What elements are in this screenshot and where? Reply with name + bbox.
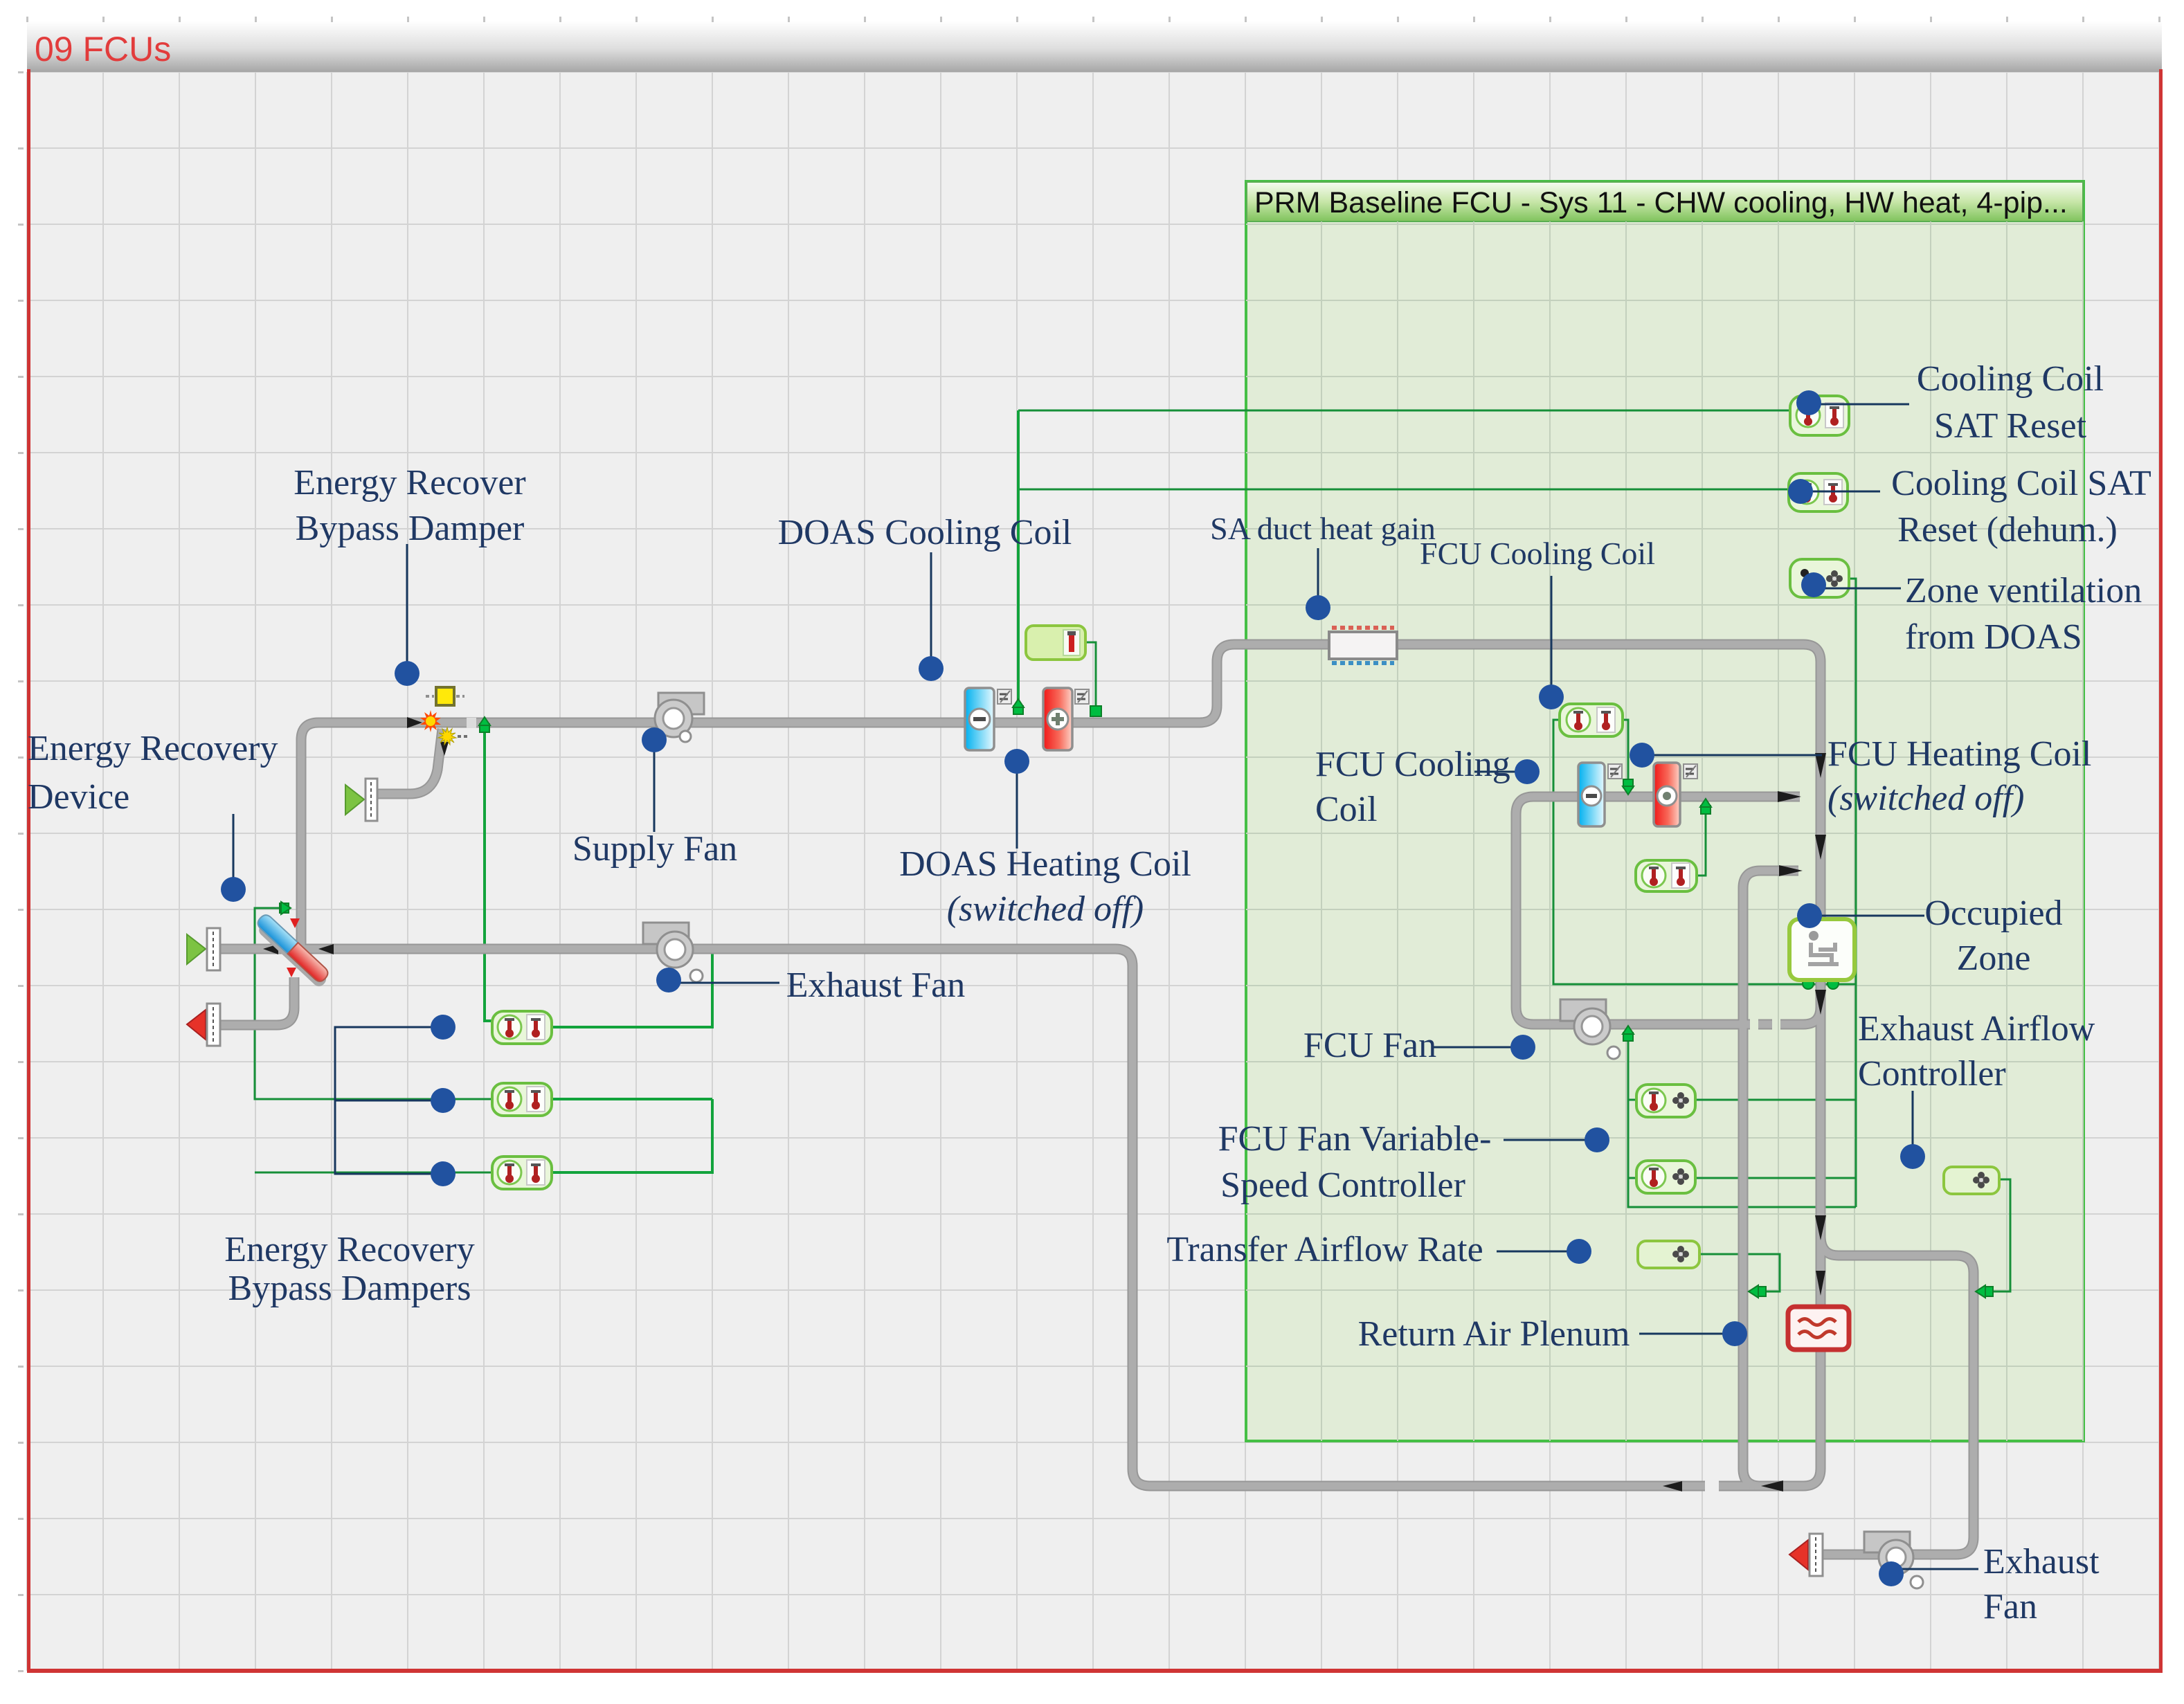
- dot cooling coil SAT reset: [1796, 390, 1821, 415]
- wire duct: outside air / exhaust main horizontal and run to plenum: [220, 949, 1796, 1486]
- sensor FCU fan speed 2: [1636, 1161, 1695, 1193]
- svg-text:Controller: Controller: [1858, 1054, 2006, 1094]
- leader FCU cooling coil top: [1551, 576, 1553, 697]
- svg-text:Fan: Fan: [1983, 1587, 2037, 1626]
- sensor ERV bypass damper 1: [492, 1011, 552, 1044]
- wire cooling coil SAT reset to DOAS coil: [1018, 410, 1790, 412]
- duct gap on bottom exhaust run: [1705, 1480, 1719, 1492]
- damper starburst red: [420, 710, 441, 732]
- wire cooling coil SAT reset (dehum) to DOAS coil: [1018, 489, 1789, 491]
- damper starburst yellow: [438, 727, 468, 745]
- svg-text:Supply Fan: Supply Fan: [572, 829, 737, 869]
- arrow left at bottom junction: [1761, 1480, 1783, 1492]
- arrow down into plenum: [1816, 1271, 1825, 1296]
- arrow down zone exhaust: [1815, 1215, 1826, 1240]
- sensor cooling coil SAT reset dehum: [1789, 473, 1848, 511]
- wire duct: outside air / exhaust main horizontal and run to plenum: [220, 949, 1796, 1486]
- leader FCU heating coil: [1642, 754, 1822, 756]
- svg-text:Speed Controller: Speed Controller: [1220, 1166, 1465, 1205]
- exhaust outlet boundary bottom right: [1789, 1534, 1823, 1576]
- wire FCU coil sensor right to FCU heating coil duct: [1623, 720, 1628, 783]
- svg-text:Exhaust Fan: Exhaust Fan: [786, 966, 966, 1005]
- wire duct: bypass damper branch: [376, 729, 442, 794]
- header bar: [27, 21, 2162, 72]
- wire duct: FCU recirculation loop: [1794, 979, 1821, 1024]
- leader occupied zone: [1810, 915, 1924, 917]
- wire bypass sensors right to exhaust duct: [552, 950, 712, 1027]
- dot DOAS heating coil: [1004, 749, 1029, 774]
- wire duct: bypass damper branch: [376, 729, 442, 794]
- sensor FCU fan speed 1: [1636, 1085, 1695, 1117]
- wire FCU lower sensor to duct right of FCU heating coil: [1697, 806, 1706, 876]
- dot exhaust fan: [656, 968, 681, 993]
- leader FCU cooling coil left: [1474, 771, 1527, 773]
- svg-text:DOAS Heating Coil: DOAS Heating Coil: [899, 844, 1191, 884]
- svg-text:FCU Heating Coil: FCU Heating Coil: [1827, 734, 2091, 774]
- leader energy recovery device: [233, 814, 235, 889]
- leader FCU fan: [1433, 1046, 1523, 1049]
- dot FCU fan: [1510, 1035, 1535, 1060]
- wire duct: transfer air riser: [1743, 871, 1798, 1486]
- wire vertical drop to DOAS cooling coil duct: [1017, 410, 1020, 710]
- arrow down below zone: [1815, 990, 1826, 1015]
- dot FCU cooling coil left: [1515, 759, 1540, 784]
- exhaust outlet boundary: [187, 1004, 220, 1046]
- dot FCU fan variable speed controller: [1585, 1127, 1609, 1152]
- arrow down supply duct upper: [1815, 753, 1826, 778]
- svg-text:(switched off): (switched off): [947, 889, 1144, 929]
- wire bypass sensor 3 left: [255, 1172, 492, 1174]
- wire duct: FCU recirculation loop: [1794, 979, 1821, 1024]
- leader exhaust fan bottom: [1891, 1568, 1978, 1570]
- svg-text:Occupied: Occupied: [1924, 894, 2062, 933]
- svg-text:Energy Recover: Energy Recover: [294, 463, 525, 502]
- DOAS heating coil: [1043, 688, 1072, 750]
- dot zone ventilation: [1801, 572, 1826, 597]
- arrow on bottom exhaust duct: [1663, 1481, 1682, 1492]
- arrow exhaust into ERV right: [318, 944, 334, 954]
- leader energy recover bypass damper: [406, 544, 408, 673]
- OA inlet boundary: [187, 928, 220, 970]
- leader DOAS heating coil: [1016, 761, 1018, 849]
- svg-text:Cooling Coil SAT: Cooling Coil SAT: [1891, 464, 2151, 503]
- dot energy recover bypass damper: [395, 661, 419, 686]
- svg-text:Zone: Zone: [1957, 939, 2031, 978]
- leader cooling coil SAT reset: [1809, 404, 1909, 406]
- wire ERV bypass damper sensors to ERV riser: [255, 908, 492, 1099]
- sensor zone ventilation from DOAS: [1790, 559, 1849, 597]
- leader DOAS cooling coil: [930, 552, 932, 669]
- svg-text:FCU Fan Variable-: FCU Fan Variable-: [1218, 1119, 1492, 1159]
- leader tree bypass dampers: [335, 1027, 443, 1174]
- leader supply fan: [653, 740, 656, 832]
- leader exhaust fan: [669, 982, 779, 984]
- sensor FCU cooling coil controller: [1560, 704, 1623, 736]
- wire duct: zone to return air plenum: [1816, 1239, 1826, 1309]
- dot exhaust airflow controller: [1900, 1144, 1925, 1169]
- svg-text:FCU Cooling: FCU Cooling: [1315, 745, 1510, 784]
- wire duct: supply riser and main supply run into zone: [301, 644, 1821, 949]
- flow arrows: [263, 717, 1826, 1492]
- return air plenum icon: [1788, 1307, 1849, 1350]
- svg-text:(switched off): (switched off): [1827, 779, 2025, 818]
- leader SA duct heat gain: [1317, 548, 1319, 608]
- green control wires: [255, 410, 2010, 1291]
- sensor ERV bypass damper 3: [492, 1157, 552, 1189]
- dot bypass damper sensor 2: [431, 1088, 455, 1113]
- leader return air plenum: [1639, 1333, 1735, 1335]
- schedule icon FCU cooling coil: [1608, 764, 1622, 779]
- sensor ERV bypass damper 2: [492, 1083, 552, 1116]
- arrow FCU coil duct into supply: [1778, 791, 1801, 802]
- wire exhaust airflow box to duct node: [1989, 1179, 2010, 1291]
- arrow down supply duct lower: [1815, 835, 1826, 860]
- dot supply fan: [642, 727, 667, 752]
- svg-text:Return Air Plenum: Return Air Plenum: [1358, 1314, 1630, 1354]
- SA duct heat gain: [1329, 628, 1397, 663]
- svg-text:Device: Device: [28, 777, 129, 817]
- FCU heating coil: [1654, 763, 1680, 826]
- wire zone ventilation sensor control vertical: [1849, 579, 1856, 1207]
- dot SA duct heat gain: [1306, 595, 1330, 620]
- wire transfer airflow box to transfer duct: [1699, 1254, 1780, 1291]
- leader cooling coil SAT reset dehum: [1801, 491, 1880, 493]
- dot return air plenum: [1722, 1321, 1747, 1346]
- wire duct: exhaust outlet elbow: [220, 977, 294, 1025]
- svg-text:Zone ventilation: Zone ventilation: [1905, 571, 2142, 610]
- leader FCU fan variable speed controller: [1504, 1139, 1597, 1141]
- svg-text:SAT Reset: SAT Reset: [1934, 406, 2087, 446]
- sensor cooling coil SAT reset: [1790, 396, 1849, 435]
- schedule icon DOAS heating coil: [1075, 689, 1089, 704]
- svg-text:Exhaust: Exhaust: [1983, 1542, 2100, 1581]
- svg-text:Cooling Coil: Cooling Coil: [1917, 359, 2104, 399]
- wire duct: zone to return air plenum: [1817, 1239, 1825, 1309]
- FCU fan: [1560, 999, 1620, 1059]
- svg-text:Exhaust Airflow: Exhaust Airflow: [1858, 1009, 2095, 1049]
- leader zone ventilation: [1814, 588, 1901, 590]
- wire FCU fan speed sensors left riser: [1628, 1034, 1856, 1207]
- DOAS cooling coil: [965, 688, 994, 750]
- svg-text:Transfer Airflow Rate: Transfer Airflow Rate: [1166, 1230, 1483, 1269]
- svg-text:DOAS Cooling Coil: DOAS Cooling Coil: [778, 513, 1072, 552]
- wire DOAS controller to heating coil duct: [1084, 642, 1096, 707]
- svg-text:09 FCUs: 09 FCUs: [35, 30, 171, 69]
- wire duct: exhaust outlet elbow: [220, 977, 294, 1025]
- PRM Baseline FCU system boundary: [1246, 181, 2084, 1441]
- schedule icon DOAS cooling coil: [998, 689, 1011, 704]
- arrow transfer duct into supply: [1779, 865, 1803, 876]
- dot bypass damper sensor 1: [431, 1015, 455, 1040]
- bypass inlet boundary: [345, 779, 377, 821]
- arrow into bypass damper: [407, 717, 422, 728]
- wire duct: transfer air riser: [1743, 871, 1798, 1486]
- svg-text:Bypass Dampers: Bypass Dampers: [228, 1269, 471, 1308]
- FCU cooling coil: [1578, 763, 1605, 826]
- sensor transfer airflow rate: [1638, 1241, 1699, 1268]
- wire duct: zone exhaust branch to exhaust fan: [1816, 980, 1826, 1239]
- wire duct: supply riser and main supply run into zone: [301, 644, 1821, 949]
- dot DOAS cooling coil: [919, 656, 944, 681]
- leaders and dots: [221, 390, 1978, 1586]
- energy recovery device: [253, 912, 333, 989]
- svg-text:from DOAS: from DOAS: [1905, 617, 2082, 657]
- dot FCU cooling coil top: [1539, 685, 1564, 709]
- dot cooling coil SAT reset dehum: [1788, 479, 1813, 504]
- leader exhaust airflow controller: [1912, 1091, 1914, 1157]
- exhaust fan bottom: [1864, 1532, 1923, 1588]
- sensor exhaust airflow controller: [1944, 1167, 1999, 1194]
- svg-text:PRM Baseline FCU - Sys 11 - CH: PRM Baseline FCU - Sys 11 - CHW cooling,…: [1254, 186, 2068, 219]
- dot occupied zone: [1797, 903, 1822, 928]
- arrow exhaust toward ERV left: [263, 944, 278, 954]
- svg-text:Bypass Damper: Bypass Damper: [296, 509, 525, 548]
- dot exhaust fan bottom: [1879, 1561, 1904, 1586]
- svg-text:FCU Fan: FCU Fan: [1303, 1026, 1436, 1065]
- DOAS heating controller: [1026, 626, 1085, 660]
- leader transfer airflow rate: [1497, 1251, 1579, 1253]
- svg-text:FCU Cooling Coil: FCU Cooling Coil: [1420, 536, 1655, 571]
- occupied zone icon: [1789, 919, 1854, 980]
- schedule icon FCU heating coil: [1684, 764, 1697, 779]
- exhaust fan: [643, 923, 703, 982]
- wire FCU coil sensor to main control vertical: [1553, 720, 1856, 984]
- svg-text:Reset (dehum.): Reset (dehum.): [1897, 510, 2118, 550]
- arrow down bypass branch: [440, 742, 449, 756]
- wire FCU fan speed sensors right to control vertical: [1695, 1099, 1856, 1101]
- supply fan: [655, 693, 704, 742]
- duct gap at bypass damper: [467, 718, 476, 728]
- svg-text:Energy Recovery: Energy Recovery: [224, 1230, 474, 1269]
- dot transfer airflow rate: [1567, 1239, 1591, 1264]
- damper actuator: [426, 687, 464, 705]
- dot FCU heating coil: [1630, 743, 1654, 768]
- ducts: [220, 644, 1974, 1555]
- svg-text:Coil: Coil: [1315, 790, 1378, 829]
- green system box: [1246, 181, 2084, 1442]
- dot energy recovery device: [221, 877, 246, 902]
- wire damper node down to bypass sensor 1: [485, 727, 492, 1021]
- wire duct: zone exhaust branch to exhaust fan: [1817, 980, 1825, 1239]
- dot bypass damper sensor 3: [431, 1161, 455, 1186]
- svg-text:Energy Recovery: Energy Recovery: [28, 729, 278, 768]
- sensor FCU heating coil controller: [1636, 860, 1697, 891]
- svg-text:SA duct heat gain: SA duct heat gain: [1210, 511, 1436, 546]
